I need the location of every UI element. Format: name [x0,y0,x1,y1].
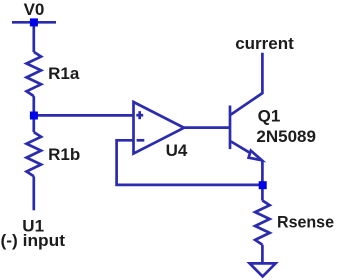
svg-text:Q1: Q1 [258,106,281,125]
svg-text:R1a: R1a [48,64,80,83]
svg-text:current: current [235,34,294,53]
svg-text:(-) input: (-) input [1,231,66,250]
svg-text:2N5089: 2N5089 [256,127,316,146]
svg-text:Rsense: Rsense [277,212,334,231]
svg-text:R1b: R1b [48,145,80,164]
svg-text:U4: U4 [166,141,188,160]
svg-text:V0: V0 [24,0,45,19]
